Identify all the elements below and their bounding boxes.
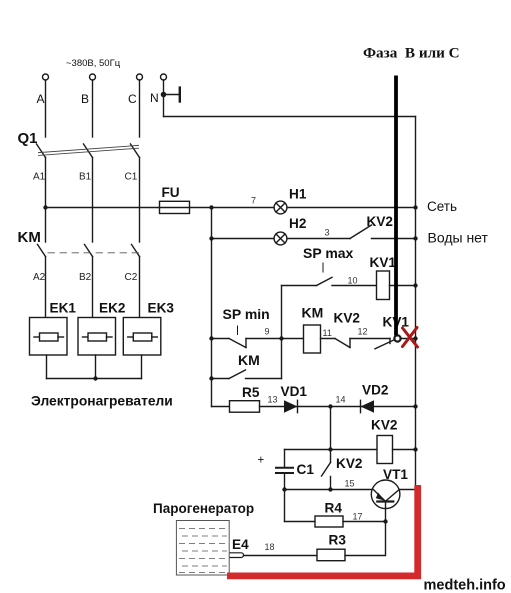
wire row4 seg2 (246, 338, 304, 340)
relay coil KV2 (377, 436, 393, 464)
red highlight path (227, 485, 418, 576)
resistor R3 (317, 549, 345, 561)
svg-text:C1: C1 (125, 172, 138, 183)
svg-text:SP min: SP min (223, 306, 270, 322)
svg-text:7: 7 (251, 196, 256, 206)
contact KV2 row2 blade (350, 225, 372, 239)
lamp H1 (274, 201, 287, 214)
wire phase B middle (92, 158, 94, 243)
contact KV1 fixed stub (389, 339, 391, 344)
wire left rail (211, 208, 213, 407)
terminal C (137, 74, 143, 80)
wire R4 row left (285, 521, 316, 523)
wire control row 2 left (212, 238, 351, 240)
wire row7 right (393, 449, 416, 451)
svg-text:EK2: EK2 (99, 301, 126, 316)
wire VT1 base lead (385, 502, 387, 522)
transistor VT1 (371, 480, 400, 509)
node rail row6 (413, 404, 417, 408)
contact SP max blade (317, 277, 333, 285)
wire row4 seg1 (212, 338, 230, 340)
heater EK1 element (34, 333, 64, 341)
node C1 bottom (282, 487, 286, 491)
wire SPmax row right (390, 285, 416, 287)
node tap on phase A (43, 205, 47, 209)
svg-text:SP max: SP max (303, 245, 354, 261)
actuator tick SP min (237, 326, 239, 335)
svg-text:+: + (258, 455, 265, 467)
svg-text:EK3: EK3 (148, 301, 175, 316)
svg-text:Воды нет: Воды нет (428, 230, 489, 246)
svg-text:A: A (37, 92, 45, 106)
diode VD1 (284, 400, 298, 412)
svg-text:12: 12 (358, 327, 368, 337)
wire mid branch down (330, 407, 332, 463)
wire KV2 vert lower (330, 477, 332, 490)
svg-text:KV1: KV1 (370, 255, 397, 270)
tank water dashes (179, 529, 227, 573)
wire N vertical (163, 80, 165, 117)
node KV1 common (394, 335, 400, 341)
wire phase A upper (45, 80, 47, 137)
resistor R4 (315, 516, 343, 527)
svg-text:A2: A2 (33, 272, 46, 283)
node star point (93, 376, 97, 380)
svg-text:Электронагреватели: Электронагреватели (31, 394, 173, 409)
contactor KM pole C blade (132, 245, 140, 257)
wire phase B lower (92, 257, 94, 318)
relay coil KV1 (377, 271, 390, 300)
svg-text:H2: H2 (289, 216, 307, 231)
contactor KM pole A blade (38, 245, 46, 257)
wire R3 row left (244, 555, 318, 557)
contactor KM pole B blade (85, 245, 93, 257)
svg-text:Сеть: Сеть (427, 199, 457, 214)
node rail row1 (413, 205, 417, 209)
svg-text:C: C (128, 92, 137, 106)
wire SPmax row left (282, 285, 317, 287)
terminal N (161, 74, 167, 80)
capacitor C1 top stem (284, 450, 286, 468)
svg-text:17: 17 (353, 512, 363, 522)
contact KV1 blade (375, 339, 396, 349)
contactor coil KM (304, 325, 321, 353)
svg-text:E4: E4 (232, 537, 249, 552)
wire row6 seg2 (260, 406, 416, 408)
node left rail row2 (209, 236, 213, 240)
wire phase A middle (45, 158, 47, 243)
svg-text:C1: C1 (297, 462, 315, 477)
wire EK1 to star (46, 355, 48, 379)
heater EK1 box (30, 318, 68, 356)
svg-text:FU: FU (162, 185, 180, 200)
svg-text:B2: B2 (79, 272, 92, 283)
svg-text:R5: R5 (242, 385, 260, 400)
steam generator tank (176, 521, 229, 576)
breaker Q1 pole A blade (37, 144, 46, 158)
wire star bus (47, 378, 142, 380)
svg-text:~380В, 50Гц: ~380В, 50Гц (66, 58, 121, 69)
svg-text:KM: KM (302, 305, 324, 321)
node rail row4 (413, 336, 417, 340)
svg-text:18: 18 (265, 542, 275, 552)
svg-text:VD2: VD2 (362, 383, 389, 398)
wire VT1 collector (400, 489, 417, 491)
wire N run to right rail (164, 116, 416, 118)
svg-text:10: 10 (348, 276, 358, 286)
node rail row3 (413, 283, 417, 287)
wire N stub (164, 94, 179, 96)
heater EK2 box (78, 318, 116, 356)
wire row4 seg4 (350, 338, 390, 340)
wire row2 right (372, 238, 416, 240)
terminal B (90, 74, 96, 80)
svg-text:B1: B1 (79, 172, 92, 183)
contactor KM linkage dashed (48, 252, 139, 254)
wire control row 1 (46, 207, 416, 209)
wire row8 (285, 489, 372, 491)
wire row4 seg5 (401, 338, 416, 340)
svg-text:R3: R3 (329, 533, 347, 548)
wire phase C middle (139, 158, 141, 243)
node left rail row4 (209, 336, 213, 340)
heater EK3 box (123, 318, 161, 356)
wire row6 corner (212, 406, 230, 408)
svg-text:VD1: VD1 (281, 384, 308, 399)
svg-text:A1: A1 (33, 172, 46, 183)
svg-text:KM: KM (238, 352, 260, 368)
wire EK2 to star (95, 355, 97, 379)
node rail row7 (413, 447, 417, 451)
svg-text:Фаза В или С: Фаза В или С (363, 45, 460, 62)
contact KV2 vert blade (322, 463, 331, 477)
svg-text:KV2: KV2 (334, 311, 361, 326)
svg-text:14: 14 (336, 395, 346, 405)
wire right rail (N) (415, 117, 417, 487)
svg-text:EK1: EK1 (50, 301, 77, 316)
svg-text:15: 15 (345, 479, 355, 489)
heater EK2 element (83, 333, 113, 341)
svg-text:KM: KM (18, 229, 41, 246)
node left rail row5 (209, 376, 213, 380)
lamp H2 (274, 232, 287, 245)
node row6 junction (328, 404, 332, 408)
node branch junction (279, 336, 283, 340)
svg-text:Q1: Q1 (18, 130, 38, 147)
wire row5 seg2 (246, 378, 282, 380)
svg-text:B: B (81, 92, 89, 106)
wire row5 seg1 (212, 378, 230, 380)
wire phase A lower (45, 257, 47, 318)
node base junction (383, 519, 387, 523)
heater EK3 element (128, 333, 158, 341)
svg-text:medteh.info: medteh.info (424, 578, 506, 593)
contact KM hold blade (229, 370, 246, 379)
fuse FU body (160, 201, 190, 213)
contact KV2 row4 blade (335, 339, 350, 348)
wire R3 row right (345, 522, 386, 556)
actuator tick SP max (322, 263, 324, 272)
wire phase B upper (92, 80, 94, 137)
svg-text:H1: H1 (289, 187, 307, 202)
contact SP min blade (229, 339, 246, 348)
svg-text:Парогенератор: Парогенератор (153, 501, 254, 516)
svg-text:N: N (150, 91, 159, 105)
wire SPmax row mid (332, 285, 377, 287)
node mid branch row7 (328, 447, 332, 451)
node rail row2 (413, 236, 417, 240)
svg-text:13: 13 (268, 395, 278, 405)
node N junction (161, 92, 167, 98)
red cross mark (403, 328, 418, 348)
wire row4 seg3 (321, 338, 336, 340)
breaker Q1 pole C blade (131, 144, 140, 158)
capacitor C1 bottom stem (284, 474, 286, 522)
svg-text:11: 11 (323, 328, 332, 338)
wire row7 (285, 449, 378, 451)
wire EK3 to star (141, 355, 143, 379)
resistor R5 (230, 401, 260, 413)
svg-text:KV2: KV2 (371, 418, 398, 433)
breaker Q1 linkage (39, 145, 139, 155)
wire phase C upper (139, 80, 141, 137)
svg-text:R4: R4 (325, 501, 343, 516)
breaker Q1 pole B blade (84, 144, 93, 158)
svg-text:KV2: KV2 (367, 214, 394, 229)
svg-text:C2: C2 (125, 272, 138, 283)
terminal bar on N stub (179, 88, 181, 102)
svg-text:3: 3 (325, 228, 330, 238)
svg-text:9: 9 (265, 327, 270, 337)
node row8 mid (328, 487, 332, 491)
node left rail top (209, 205, 213, 209)
svg-text:KV2: KV2 (336, 456, 363, 471)
wire phase C lower (139, 257, 141, 318)
terminal A (43, 74, 49, 80)
diode VD2 (361, 400, 375, 412)
electrode E4 (220, 553, 244, 558)
wire R4 row right (343, 521, 386, 523)
wire phase feed thick (394, 76, 398, 336)
wire branch vertical (281, 286, 283, 379)
capacitor C1 plates (276, 468, 293, 473)
